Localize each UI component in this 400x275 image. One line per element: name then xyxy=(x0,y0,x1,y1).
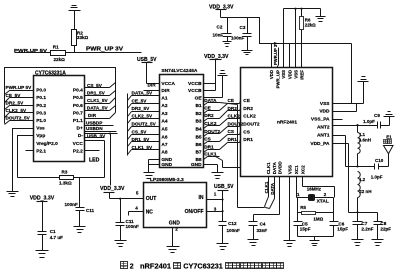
svg-text:1.0pF: 1.0pF xyxy=(371,175,383,180)
net flag DR1 xyxy=(220,137,241,150)
net flag DOUT2 xyxy=(204,129,221,137)
svg-text:P0.5: P0.5 xyxy=(73,95,83,101)
svg-text:3.6nH: 3.6nH xyxy=(359,137,371,142)
wire XC2 xyxy=(303,177,335,198)
svg-text:VSS: VSS xyxy=(320,101,330,107)
wire Vss xyxy=(13,129,34,192)
svg-text:VSS: VSS xyxy=(281,70,286,79)
svg-text:DIR: DIR xyxy=(148,83,157,88)
svg-text:GND: GND xyxy=(169,220,181,226)
svg-text:2: 2 xyxy=(324,192,327,197)
svg-text:DR1_5V: DR1_5V xyxy=(132,137,151,142)
wire VCCB xyxy=(204,60,216,91)
svg-text:CLK1: CLK1 xyxy=(266,162,271,174)
svg-text:P0.0: P0.0 xyxy=(36,88,46,94)
svg-text:DATA: DATA xyxy=(204,98,217,103)
svg-text:XTAL: XTAL xyxy=(317,198,329,204)
bus top wire xyxy=(5,68,116,124)
svg-text:USBDP: USBDP xyxy=(86,121,102,126)
svg-text:22kΩ: 22kΩ xyxy=(54,57,66,62)
svg-text:DR1: DR1 xyxy=(243,137,253,143)
ground xyxy=(36,251,49,258)
svg-text:100nF: 100nF xyxy=(227,228,240,233)
wire IN xyxy=(207,198,224,200)
svg-text:15pF: 15pF xyxy=(300,226,311,231)
svg-text:Vreg/P2.0: Vreg/P2.0 xyxy=(36,141,58,147)
wire PWR_UP 3V xyxy=(66,52,142,54)
svg-text:GND: GND xyxy=(161,157,172,163)
svg-text:A6: A6 xyxy=(161,134,167,140)
ground xyxy=(223,42,232,47)
svg-text:1MΩ: 1MΩ xyxy=(313,216,323,221)
svg-text:Vss: Vss xyxy=(36,126,45,132)
resistor R1 xyxy=(51,45,66,63)
svg-text:B1: B1 xyxy=(195,103,201,109)
svg-text:C11: C11 xyxy=(86,208,95,213)
wire CLK1 to nRF xyxy=(216,157,241,168)
capacitor C5 xyxy=(294,213,311,237)
wire data bus bottom xyxy=(238,207,270,209)
svg-text:B4: B4 xyxy=(195,127,201,133)
power label USB_5V xyxy=(137,57,160,83)
svg-text:PWR_UP: PWR_UP xyxy=(275,70,280,89)
svg-text:NC: NC xyxy=(146,210,154,216)
svg-text:USB_5V: USB_5V xyxy=(214,184,234,190)
power label VDD_3.3V xyxy=(100,186,125,198)
net flag DR2 xyxy=(220,106,241,119)
svg-text:P0.7: P0.7 xyxy=(73,110,83,116)
net flag DR1 xyxy=(204,144,220,152)
svg-text:DOUT2_5V: DOUT2_5V xyxy=(132,122,157,127)
svg-text:CLK2: CLK2 xyxy=(204,121,217,126)
net flag DATA xyxy=(204,98,220,106)
svg-text:15pF: 15pF xyxy=(337,226,348,231)
svg-text:VDD_3.3V: VDD_3.3V xyxy=(100,186,125,192)
svg-text:OUT: OUT xyxy=(146,196,157,202)
svg-text:B5: B5 xyxy=(195,134,201,140)
svg-text:P1.0: P1.0 xyxy=(36,118,46,124)
net flag CS xyxy=(204,137,220,145)
svg-text:CE: CE xyxy=(228,98,235,103)
net flag CLK2 xyxy=(204,121,220,128)
svg-text:GND: GND xyxy=(161,162,172,168)
ground xyxy=(7,192,19,197)
svg-text:DR2: DR2 xyxy=(204,113,214,118)
wire NC stub xyxy=(129,212,144,216)
svg-text:VCCB: VCCB xyxy=(188,81,202,87)
IC U5 nRF2401 xyxy=(241,68,333,177)
wire VSS bottom xyxy=(289,177,291,241)
wire VSS_PA stub xyxy=(333,119,343,121)
svg-text:C3: C3 xyxy=(240,25,246,30)
power label VDD_3.3V xyxy=(209,4,234,17)
wire D- xyxy=(85,132,118,134)
net flag DR2_5V xyxy=(128,106,160,116)
svg-text:VDD: VDD xyxy=(287,70,292,79)
svg-text:DR1: DR1 xyxy=(204,144,214,149)
net flag PWR_UP 3V xyxy=(273,42,278,66)
svg-text:22 nH: 22 nH xyxy=(359,189,371,194)
ground xyxy=(212,173,224,179)
wire OUT xyxy=(110,198,144,200)
net flag CLK1 xyxy=(204,151,220,159)
net flag DATA xyxy=(270,177,276,209)
wire ON/OFF xyxy=(207,210,224,212)
svg-text:L2: L2 xyxy=(360,177,366,182)
svg-text:2.2nF: 2.2nF xyxy=(361,226,373,231)
svg-text:100nF: 100nF xyxy=(231,36,244,41)
svg-text:B3: B3 xyxy=(195,119,201,125)
svg-text:CLK2_5V: CLK2_5V xyxy=(6,108,27,113)
svg-text:XC2: XC2 xyxy=(300,165,305,174)
svg-text:PWR.UP 5V: PWR.UP 5V xyxy=(14,48,48,54)
capacitor C1 xyxy=(38,229,64,250)
svg-text:R1: R1 xyxy=(53,45,59,50)
IC U1 CY7C63231A xyxy=(34,71,85,162)
svg-text:1: 1 xyxy=(297,192,300,197)
svg-text:CLK2: CLK2 xyxy=(243,114,256,120)
wire VSS pin3 xyxy=(283,9,285,68)
net label PWR.UP 5V xyxy=(14,48,51,54)
svg-text:B2: B2 xyxy=(195,111,201,117)
net flag CLK1_5V xyxy=(85,98,116,104)
svg-text:CE: CE xyxy=(204,106,211,111)
wire DIR label xyxy=(144,83,160,91)
svg-text:A8: A8 xyxy=(161,150,167,156)
capacitor C9 xyxy=(374,113,390,129)
svg-text:R3: R3 xyxy=(62,169,68,174)
capacitor C10 xyxy=(371,158,389,179)
svg-text:ANT2: ANT2 xyxy=(317,125,330,131)
ground xyxy=(144,173,155,179)
capacitor C4 xyxy=(249,215,268,240)
svg-text:LP2980IM5-3.3: LP2980IM5-3.3 xyxy=(150,177,184,183)
inductor L1 xyxy=(358,126,372,167)
svg-text:VDD_PA: VDD_PA xyxy=(310,141,330,147)
antenna E1 xyxy=(384,135,394,167)
svg-text:P1.1: P1.1 xyxy=(73,118,83,124)
net label USB_3V xyxy=(85,133,107,138)
svg-text:VCCB: VCCB xyxy=(188,88,202,94)
wire VSS pin5 xyxy=(271,44,273,68)
net flag PWR.UP 5V xyxy=(5,85,34,94)
capacitor C8 xyxy=(374,213,392,240)
svg-text:nRF2401: nRF2401 xyxy=(277,120,297,126)
svg-text:4: 4 xyxy=(135,205,138,210)
svg-text:CY7C63231A: CY7C63231A xyxy=(35,71,66,77)
svg-text:22pF: 22pF xyxy=(380,226,391,231)
svg-text:A4: A4 xyxy=(161,119,167,125)
svg-text:DIR: DIR xyxy=(161,88,170,94)
ground xyxy=(284,241,296,247)
svg-text:100nF: 100nF xyxy=(126,224,139,229)
net label USBDP xyxy=(85,121,114,126)
svg-text:P0.1: P0.1 xyxy=(36,95,46,101)
svg-text:IREF: IREF xyxy=(299,70,304,80)
net flag CE_5V xyxy=(5,93,34,103)
wire DATA to nRF xyxy=(220,103,238,208)
net label USBDN xyxy=(85,126,117,131)
wire VCC xyxy=(85,141,105,178)
svg-text:22kΩ: 22kΩ xyxy=(305,23,316,28)
net flag CE xyxy=(204,106,220,114)
svg-text:DATA: DATA xyxy=(272,162,277,175)
svg-text:33nF: 33nF xyxy=(257,228,268,233)
wire VSS xyxy=(333,44,364,104)
svg-text:C1: C1 xyxy=(50,229,56,234)
svg-text:CE_5V: CE_5V xyxy=(132,98,148,103)
wire VDD rail xyxy=(221,18,352,44)
svg-text:D+: D+ xyxy=(77,126,83,132)
svg-text:D-: D- xyxy=(78,133,83,139)
capacitor C7 xyxy=(353,213,374,240)
resistor R5 xyxy=(298,198,334,222)
svg-text:C2: C2 xyxy=(217,24,223,29)
svg-text:E1: E1 xyxy=(386,135,392,140)
ground xyxy=(384,112,395,126)
net flag DATA_5V xyxy=(85,106,116,111)
svg-text:CE: CE xyxy=(243,98,250,104)
capacitor C11b xyxy=(116,199,139,241)
svg-text:P0.4: P0.4 xyxy=(73,88,83,94)
svg-text:P0.2: P0.2 xyxy=(36,103,46,109)
svg-text:VSS: VSS xyxy=(287,165,292,174)
svg-text:CLK1_5V: CLK1_5V xyxy=(132,145,153,150)
svg-text:16MHz: 16MHz xyxy=(307,187,322,192)
ground xyxy=(358,77,369,104)
label tianxian xyxy=(384,140,392,144)
svg-text:C12: C12 xyxy=(228,221,237,226)
power label VDD_3.3V xyxy=(204,54,229,60)
svg-text:CLK2_5V: CLK2_5V xyxy=(132,114,153,119)
svg-text:C9: C9 xyxy=(374,113,380,118)
svg-text:3: 3 xyxy=(214,206,217,211)
svg-text:1: 1 xyxy=(214,192,217,197)
net flag CS xyxy=(220,129,241,141)
svg-text:VCCA: VCCA xyxy=(161,81,175,87)
svg-text:DR1_5V: DR1_5V xyxy=(87,91,106,96)
wire ground rail xyxy=(284,8,321,17)
svg-text:DOUT2: DOUT2 xyxy=(243,122,260,128)
net flag DR1_5V xyxy=(85,91,116,96)
svg-text:VDD: VDD xyxy=(269,70,274,79)
wire VDD_PA xyxy=(333,144,378,213)
svg-text:B7: B7 xyxy=(195,150,201,156)
svg-text:VSS_PA: VSS_PA xyxy=(311,117,330,123)
resistor R2 xyxy=(72,30,89,53)
svg-text:P2.1: P2.1 xyxy=(36,148,46,154)
svg-text:OE: OE xyxy=(195,96,203,102)
svg-text:VCC: VCC xyxy=(73,141,84,147)
svg-text:P2.2: P2.2 xyxy=(73,148,83,154)
wire XC1 xyxy=(297,177,298,198)
svg-text:33kΩ: 33kΩ xyxy=(77,35,89,40)
capacitor C11 xyxy=(65,178,95,227)
wire VDD pin1 xyxy=(277,66,279,68)
net flag CS_5V xyxy=(85,83,116,88)
svg-text:SN74LVC4245A: SN74LVC4245A xyxy=(161,68,198,74)
svg-text:DOUT2_5V: DOUT2_5V xyxy=(6,116,31,121)
net flag DR1_5V xyxy=(128,137,160,147)
wire Vpp xyxy=(18,136,34,178)
svg-text:CS: CS xyxy=(204,137,211,142)
svg-text:nRF2401: nRF2401 xyxy=(140,263,171,270)
wire DVDD xyxy=(254,177,280,215)
svg-text:10nF: 10nF xyxy=(213,32,224,37)
net flag DR2_5V xyxy=(5,100,34,109)
svg-text:R5: R5 xyxy=(300,205,306,210)
svg-text:5: 5 xyxy=(136,191,139,196)
capacitor C2 xyxy=(213,18,232,42)
wire to VDD rail xyxy=(110,134,112,186)
svg-text:PWR_UP 3V: PWR_UP 3V xyxy=(86,47,124,53)
net flag CLK2_5V xyxy=(128,114,160,124)
net flag CLK1 xyxy=(264,177,269,207)
svg-text:2: 2 xyxy=(175,227,178,232)
ground xyxy=(69,6,81,30)
capacitor C3 xyxy=(231,18,252,51)
net flag DOUT2 xyxy=(220,121,244,133)
wire P2.2 xyxy=(85,150,100,152)
svg-text:PWR.UP 5V: PWR.UP 5V xyxy=(6,85,33,90)
svg-text:DIR: DIR xyxy=(88,113,97,118)
svg-text:CS: CS xyxy=(243,129,250,135)
svg-text:A1: A1 xyxy=(161,96,167,102)
net flag CS_5V xyxy=(128,129,160,139)
label 16MHz xyxy=(307,187,322,192)
svg-text:USBDN: USBDN xyxy=(86,126,103,131)
ground xyxy=(115,241,127,247)
ground xyxy=(248,240,259,246)
svg-text:ANT1: ANT1 xyxy=(317,133,330,139)
svg-text:DATA: DATA xyxy=(270,182,275,195)
crystal XTAL xyxy=(297,192,334,205)
net flag CE xyxy=(220,98,241,111)
net flag DATA_5V xyxy=(128,91,160,101)
svg-text:VSS: VSS xyxy=(293,70,298,79)
svg-text:DR2: DR2 xyxy=(243,106,253,112)
svg-text:A5: A5 xyxy=(161,127,167,133)
wire VDD pin4 xyxy=(290,9,296,68)
svg-text:XC1: XC1 xyxy=(294,165,299,174)
caption xyxy=(121,262,284,271)
svg-text:GND: GND xyxy=(191,162,202,168)
wire ANT1 xyxy=(333,136,375,168)
ground xyxy=(310,241,320,246)
label LED xyxy=(89,158,100,164)
wire xtal gnd rail xyxy=(298,237,334,241)
resistor R3 xyxy=(18,169,105,185)
power label USB_5V xyxy=(214,184,234,199)
wire GND right xyxy=(204,165,218,173)
svg-text:DOUT2: DOUT2 xyxy=(228,121,244,126)
svg-text:A3: A3 xyxy=(161,111,167,117)
svg-text:4.7 uF: 4.7 uF xyxy=(50,235,63,240)
ground xyxy=(74,227,86,233)
ground xyxy=(316,17,326,22)
wire ANT2 xyxy=(333,119,378,126)
inductor L2 xyxy=(356,172,371,214)
svg-text:CS_5V: CS_5V xyxy=(132,129,148,134)
svg-text:CLK2: CLK2 xyxy=(228,114,241,119)
svg-text:CS: CS xyxy=(228,129,235,134)
net flag DOUT2_5V xyxy=(128,122,160,132)
svg-text:PWR.UP 3V: PWR.UP 3V xyxy=(273,42,278,65)
ground OE xyxy=(204,71,228,98)
svg-text:CS_5V: CS_5V xyxy=(87,83,103,88)
svg-text:P0.6: P0.6 xyxy=(73,103,83,109)
ground xyxy=(167,247,180,253)
svg-text:1.3kΩ: 1.3kΩ xyxy=(59,181,72,186)
svg-text:2: 2 xyxy=(130,264,134,271)
svg-text:P0.3: P0.3 xyxy=(36,110,46,116)
svg-text:B8: B8 xyxy=(195,157,201,163)
IC U4 LP2980IM5-3.3 xyxy=(135,177,217,232)
svg-text:VDD: VDD xyxy=(319,108,330,114)
IC U3 SN74LVC4245A xyxy=(160,68,204,168)
ground xyxy=(217,244,229,250)
svg-text:VDD_3.3V: VDD_3.3V xyxy=(30,196,55,202)
svg-text:CE_5V: CE_5V xyxy=(6,93,22,98)
ground xyxy=(242,51,253,55)
svg-text:DVDD: DVDD xyxy=(277,161,282,175)
svg-text:ON/OFF: ON/OFF xyxy=(185,209,204,215)
svg-text:CY7C63231: CY7C63231 xyxy=(183,263,223,270)
svg-text:CLK1: CLK1 xyxy=(204,151,217,156)
svg-text:C4: C4 xyxy=(260,221,266,226)
net label PWR_UP 3V xyxy=(86,47,124,53)
wire DIR xyxy=(85,113,116,119)
wire VDD stub xyxy=(333,104,357,112)
svg-text:B6: B6 xyxy=(195,142,201,148)
svg-text:C10: C10 xyxy=(375,158,384,163)
net flag CLK1_5V xyxy=(128,145,160,155)
net flag CLK2 xyxy=(220,114,241,126)
ground xyxy=(372,240,384,246)
svg-text:DATA_5V: DATA_5V xyxy=(132,91,154,96)
bus wire xyxy=(127,94,129,156)
svg-text:1.0pF: 1.0pF xyxy=(363,119,375,124)
svg-text:100nF: 100nF xyxy=(65,202,78,207)
net flag CE_5V xyxy=(128,98,160,108)
ground xyxy=(352,240,364,246)
wire P2.1 xyxy=(26,150,34,152)
svg-text:DR2_5V: DR2_5V xyxy=(6,100,25,105)
svg-text:DR2_5V: DR2_5V xyxy=(132,106,151,111)
svg-text:CLK1_5V: CLK1_5V xyxy=(87,98,108,103)
wire GND pin xyxy=(172,228,174,247)
wire GND left xyxy=(149,160,160,173)
svg-text:DATA_5V: DATA_5V xyxy=(87,106,109,111)
svg-text:DOUT2: DOUT2 xyxy=(204,129,220,134)
svg-text:IN: IN xyxy=(199,195,204,201)
svg-text:CLK1: CLK1 xyxy=(264,181,269,193)
svg-text:DR2: DR2 xyxy=(228,106,238,111)
svg-text:Vpp: Vpp xyxy=(36,133,45,139)
svg-text:R6: R6 xyxy=(305,17,311,22)
svg-text:A2: A2 xyxy=(161,103,167,109)
power label VDD_3.3V xyxy=(30,196,55,230)
svg-text:LED: LED xyxy=(89,158,100,164)
resistor R6 xyxy=(300,9,317,68)
capacitor C12 xyxy=(219,200,240,244)
capacitor C6 xyxy=(330,198,349,237)
net flag CLK2_5V xyxy=(5,108,34,118)
svg-text:A7: A7 xyxy=(161,142,167,148)
net flag DOUT2_5V xyxy=(5,116,34,125)
net flag DR2 xyxy=(204,113,220,121)
svg-text:DR1: DR1 xyxy=(228,137,238,142)
